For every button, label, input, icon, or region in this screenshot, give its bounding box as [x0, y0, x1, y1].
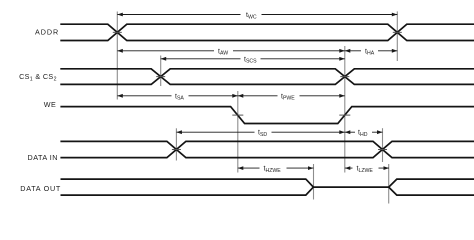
ADDR waveform bus — [60, 24, 474, 40]
svg-text:DATA OUT: DATA OUT — [20, 184, 61, 193]
vertical reference line at CS left crossing x=160.7 — [160, 56, 162, 87]
DATA IN waveform bus — [60, 141, 474, 157]
CS1 & CS2 waveform bus — [60, 69, 474, 85]
svg-text:WE: WE — [44, 100, 56, 109]
vertical reference line at WE falling edge x=237.8 — [237, 91, 239, 173]
dimension tPWE — [238, 91, 345, 102]
svg-text:DATA IN: DATA IN — [28, 153, 58, 162]
dimension tLZWE — [345, 163, 389, 174]
dimension tAW — [117, 46, 344, 57]
dimension tSA — [117, 91, 238, 102]
vertical reference line at WE rising edge x=344.8 — [344, 46, 346, 173]
vertical reference line at DATA OUT high-Z point x=313.5 — [313, 164, 315, 200]
dimension tSD — [176, 127, 344, 138]
vertical reference line at ADDR right crossing x=397.3 — [396, 11, 398, 61]
dimension tHD — [345, 127, 383, 138]
svg-text:ADDR: ADDR — [35, 27, 58, 36]
dimension tWC — [117, 10, 397, 21]
dimension tHA — [345, 46, 398, 57]
WE waveform — [60, 107, 474, 124]
svg-text:CS1 & CS2: CS1 & CS2 — [19, 72, 57, 83]
crossing center ticks — [113, 32, 402, 149]
vertical reference line at ADDR left crossing x=117.3 — [116, 12, 118, 100]
DATA OUT waveform — [61, 179, 474, 195]
vertical reference line at DATA IN left crossing x=176.4 — [175, 128, 177, 160]
dimension tSCS — [161, 54, 345, 65]
vertical reference line at DATA IN right crossing x=382.5 — [382, 128, 384, 162]
dimension tHZWE — [238, 163, 314, 174]
vertical reference line at DATA OUT low-Z point x=388.7 — [388, 164, 390, 204]
